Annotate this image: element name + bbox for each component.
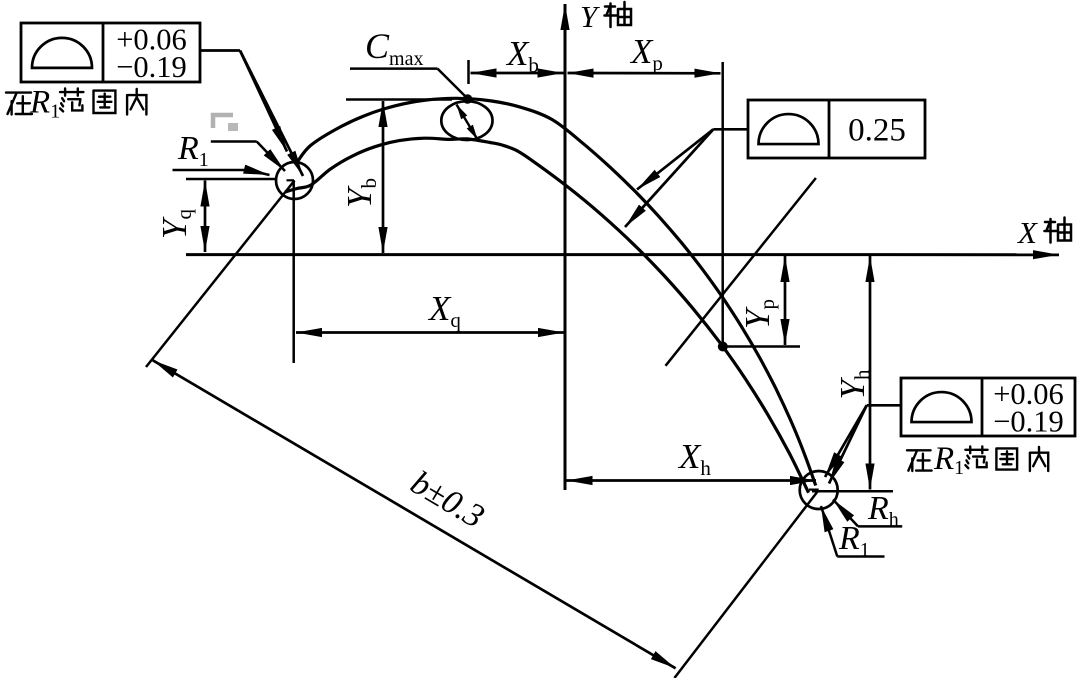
svg-text:Y: Y [580,0,600,34]
svg-text:Cmax: Cmax [365,26,423,70]
svg-text:R1: R1 [177,130,209,171]
svg-text:b±0.3: b±0.3 [404,464,490,536]
svg-text:R1: R1 [29,85,60,123]
svg-text:Yq: Yq [155,209,196,239]
svg-text:Xp: Xp [629,32,663,75]
svg-text:Yh: Yh [833,369,874,399]
svg-text:Yb: Yb [340,178,381,208]
svg-text:−0.19: −0.19 [116,50,187,84]
svg-text:Xh: Xh [677,437,711,480]
svg-text:0.25: 0.25 [848,113,906,149]
svg-text:X: X [1016,215,1038,250]
svg-text:R1: R1 [933,441,964,479]
svg-text:Xb: Xb [505,34,539,77]
svg-text:Rh: Rh [867,490,899,531]
svg-text:Xq: Xq [427,289,461,332]
svg-text:−0.19: −0.19 [993,404,1064,438]
svg-text:Yp: Yp [738,299,779,329]
